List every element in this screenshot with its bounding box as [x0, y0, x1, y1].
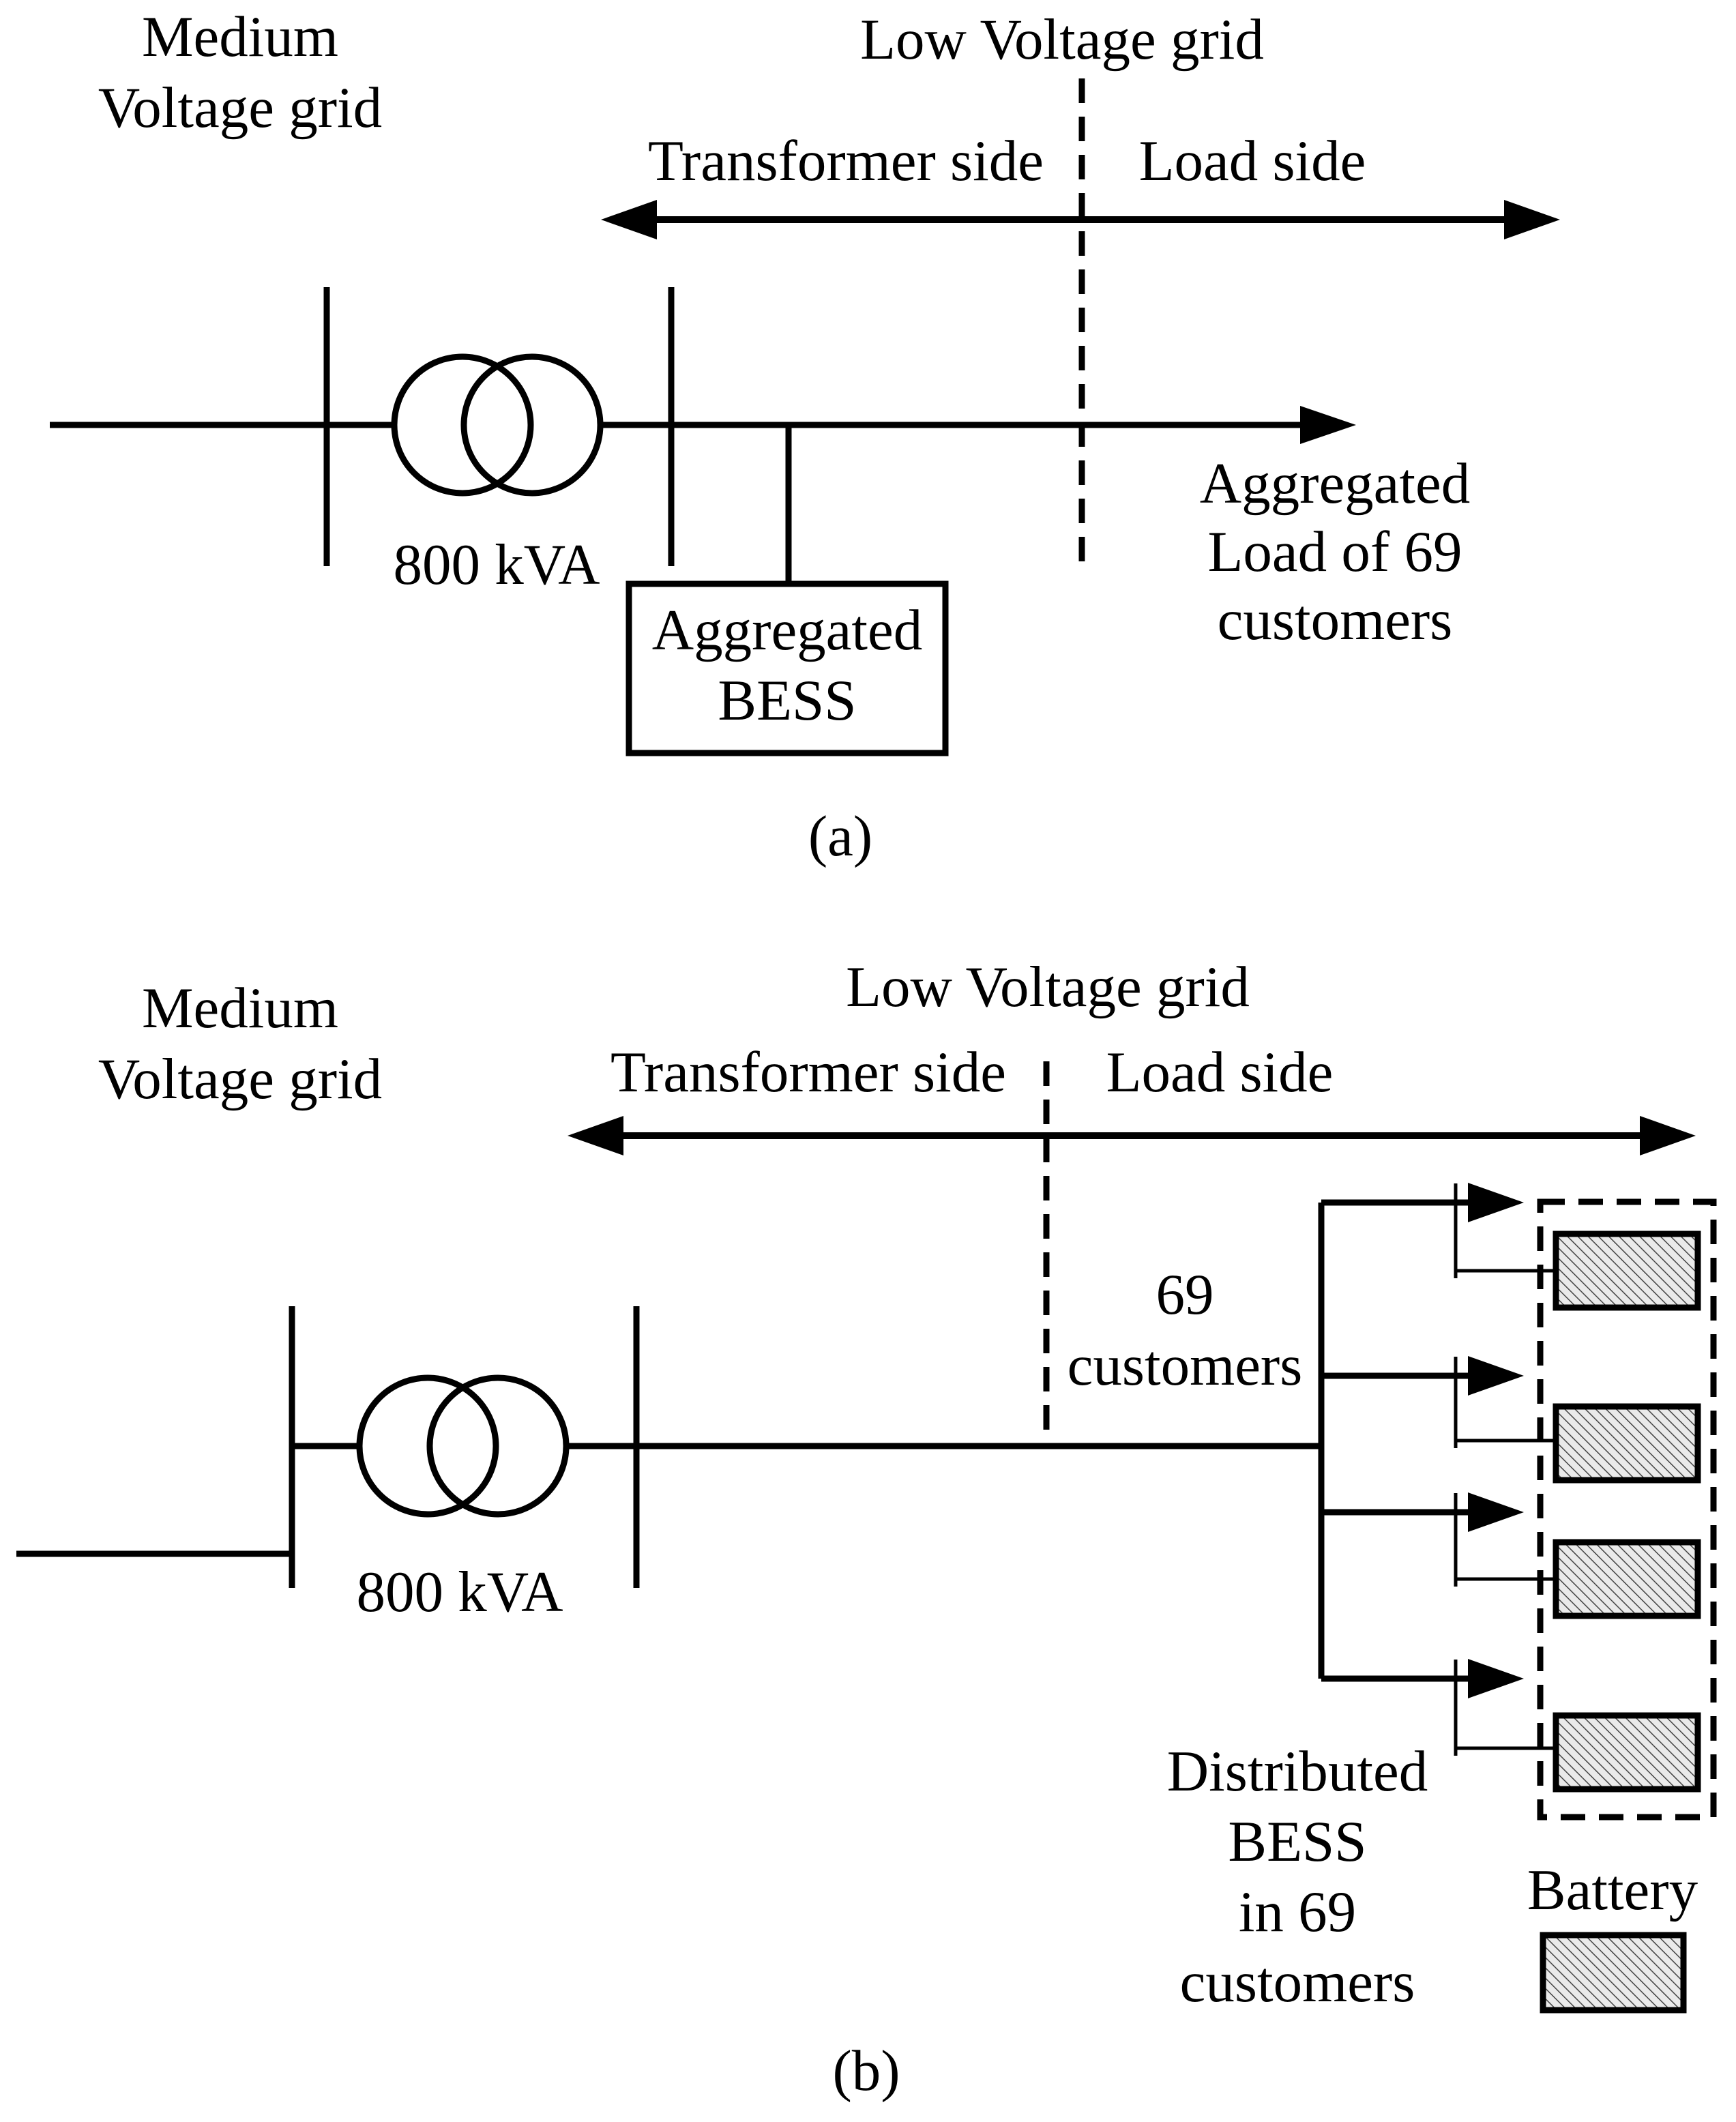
svg-text:Medium: Medium — [142, 976, 338, 1040]
svg-text:800 kVA: 800 kVA — [356, 1560, 563, 1624]
svg-text:Voltage grid: Voltage grid — [98, 76, 382, 140]
svg-text:69: 69 — [1156, 1263, 1214, 1327]
branch arrow 2 (b) — [1321, 1373, 1471, 1379]
branch arrow 1 (b) — [1321, 1200, 1471, 1206]
battery 1 (b) — [1556, 1234, 1698, 1308]
label: 69 customers (b) — [1068, 1263, 1303, 1398]
bus bar right (a) — [668, 287, 675, 566]
svg-text:Low Voltage grid: Low Voltage grid — [846, 955, 1250, 1019]
svg-text:(a): (a) — [808, 804, 872, 868]
svg-text:Medium: Medium — [142, 5, 338, 69]
transformer T2 (b): two overlapping circles — [359, 1378, 496, 1514]
svg-text:Voltage grid: Voltage grid — [98, 1047, 382, 1111]
wire: LV main line (b) — [568, 1443, 1321, 1449]
wire: bus to transformer stub (b) — [292, 1443, 361, 1449]
dashed separator line (b) — [1044, 1061, 1050, 1449]
svg-text:Transformer side: Transformer side — [610, 1040, 1006, 1104]
wire: distribution trunk (b) — [1319, 1203, 1325, 1679]
svg-text:Battery: Battery — [1527, 1858, 1698, 1922]
bus bar left (a) — [324, 287, 330, 566]
battery 2 (b) — [1556, 1406, 1698, 1480]
wire: feeder line MV to transformer (a) — [50, 422, 393, 428]
svg-text:BESS: BESS — [718, 668, 856, 733]
svg-text:Aggregated: Aggregated — [1200, 452, 1471, 516]
svg-text:customers: customers — [1218, 588, 1453, 652]
dashed separator line (a) — [1079, 78, 1085, 566]
svg-text:in 69: in 69 — [1239, 1880, 1356, 1944]
svg-text:Low Voltage grid: Low Voltage grid — [860, 8, 1264, 72]
label: Medium Voltage grid (b) — [98, 976, 382, 1111]
wire: LV main line with load arrow (a) — [602, 422, 1301, 428]
label: Medium Voltage grid (a) — [98, 5, 382, 140]
svg-text:Load side: Load side — [1139, 129, 1366, 193]
step wire to battery 4 — [1454, 1660, 1458, 1756]
battery 3 (b) — [1556, 1542, 1698, 1616]
label: Aggregated Load of 69 customers (a) — [1200, 452, 1471, 652]
svg-text:800 kVA: 800 kVA — [393, 533, 600, 597]
double-headed arrow (a) — [601, 200, 1560, 239]
battery 4 (b) — [1556, 1715, 1698, 1789]
svg-text:(b): (b) — [832, 2039, 900, 2103]
step wire to battery 2 — [1454, 1357, 1458, 1448]
svg-text:Transformer side: Transformer side — [648, 129, 1044, 193]
wire: BESS tap (a) — [786, 425, 792, 584]
branch arrow 3 (b) — [1321, 1509, 1471, 1516]
svg-text:customers: customers — [1068, 1333, 1303, 1398]
svg-text:Load side: Load side — [1106, 1040, 1334, 1104]
svg-text:Distributed: Distributed — [1167, 1739, 1428, 1803]
dashed BESS group box (b) — [1540, 1202, 1713, 1817]
svg-text:BESS: BESS — [1228, 1810, 1366, 1874]
legend battery symbol (b) — [1543, 1935, 1683, 2010]
step wire to battery 3 — [1454, 1493, 1458, 1587]
step wire to battery 1 — [1454, 1183, 1458, 1278]
branch arrow 4 (b) — [1321, 1676, 1471, 1682]
wire: feeder line entering (b) — [16, 1551, 292, 1557]
label: Distributed BESS in 69 customers (b) — [1167, 1739, 1428, 2014]
bus bar left (b) — [289, 1306, 295, 1588]
svg-text:Aggregated: Aggregated — [652, 598, 923, 662]
double-headed arrow (b) — [568, 1116, 1696, 1155]
box: Aggregated BESS (a) — [629, 584, 945, 753]
bus bar right (b) — [634, 1306, 640, 1588]
svg-text:customers: customers — [1180, 1950, 1415, 2014]
transformer T1 (a): two overlapping circles — [394, 357, 531, 493]
svg-text:Load of 69: Load of 69 — [1208, 520, 1462, 584]
